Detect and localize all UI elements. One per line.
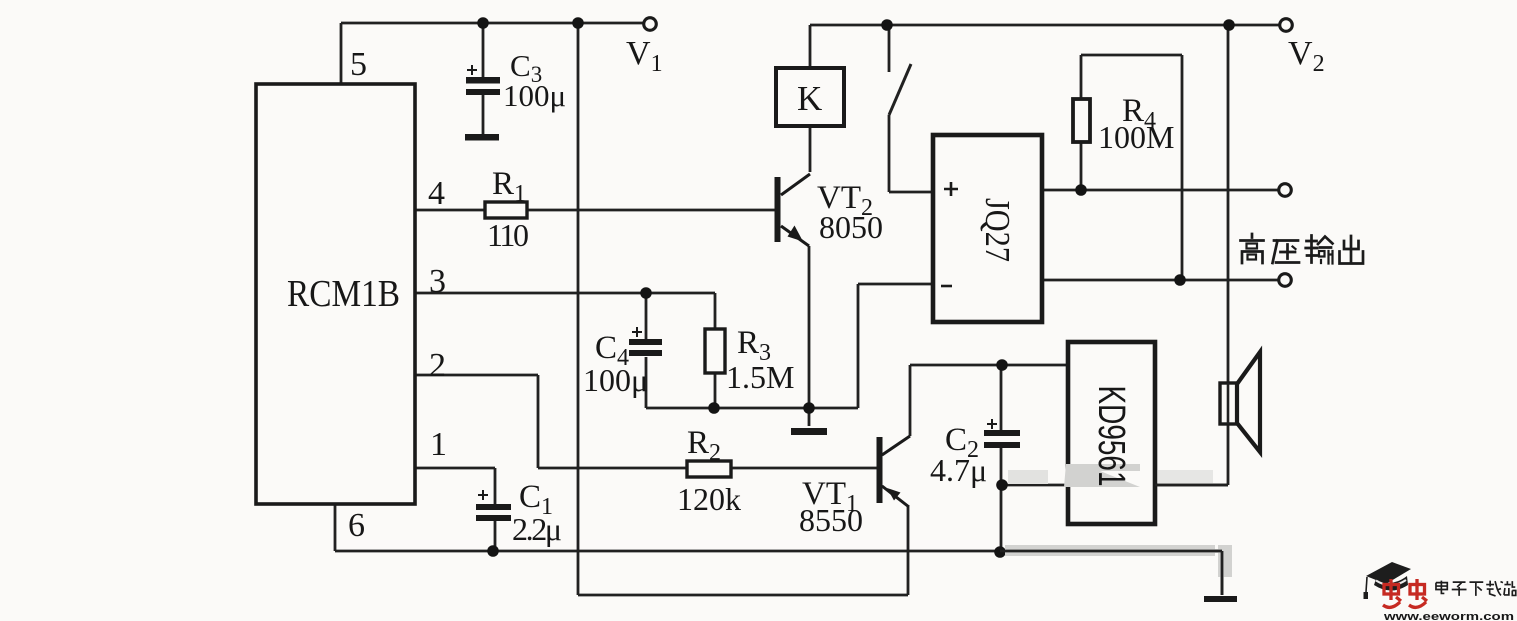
svg-text:www.eeworm.com: www.eeworm.com: [1383, 611, 1515, 621]
svg-text:120k: 120k: [677, 481, 741, 517]
svg-text:110: 110: [487, 217, 529, 253]
svg-text:8050: 8050: [819, 209, 883, 245]
svg-text:2: 2: [429, 347, 446, 384]
svg-text:K: K: [797, 79, 822, 118]
svg-text:JQ27: JQ27: [978, 198, 1017, 262]
svg-text:RCM1B: RCM1B: [287, 273, 400, 315]
svg-text:KD9561: KD9561: [1090, 386, 1132, 487]
svg-text:8550: 8550: [799, 502, 863, 538]
svg-text:1: 1: [430, 426, 447, 463]
svg-text:2.2μ: 2.2μ: [512, 511, 562, 547]
svg-text:1.5M: 1.5M: [726, 359, 794, 395]
svg-text:4.7μ: 4.7μ: [930, 452, 987, 488]
svg-text:100μ: 100μ: [583, 362, 648, 398]
svg-text:5: 5: [350, 46, 367, 83]
svg-text:6: 6: [348, 507, 365, 544]
svg-text:100M: 100M: [1098, 119, 1174, 155]
svg-text:4: 4: [428, 175, 445, 212]
svg-text:3: 3: [429, 263, 446, 300]
svg-text:100μ: 100μ: [503, 78, 566, 113]
